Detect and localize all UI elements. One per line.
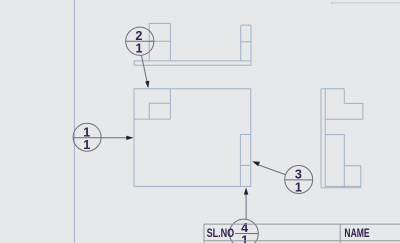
svg-text:NAME: NAME — [344, 226, 369, 240]
table bottom line — [204, 240, 400, 242]
leader line to right strip of main body — [259, 165, 286, 175]
top block — [321, 89, 363, 120]
sheet frame top-right border line — [332, 2, 400, 4]
title block table — [204, 224, 400, 243]
arrowhead pointing up — [244, 187, 248, 194]
svg-text:1: 1 — [135, 42, 142, 56]
leader line up to bottom edge of main body — [245, 195, 247, 220]
svg-text:1: 1 — [295, 180, 302, 194]
right inner strip — [240, 135, 250, 187]
arrowhead at main body left edge — [126, 136, 133, 140]
small notch rect — [149, 103, 170, 119]
outer rectangle — [134, 89, 251, 187]
svg-text:1: 1 — [241, 233, 248, 243]
leader line to top edge of main body — [141, 55, 147, 82]
part 3: right side view — [321, 89, 363, 188]
arrowhead pointing up-left — [252, 161, 260, 166]
bottom base line — [321, 187, 361, 189]
svg-text:3: 3 — [295, 167, 302, 181]
balloon 2/1 — [126, 27, 154, 88]
svg-text:1: 1 — [83, 138, 90, 152]
part 2: top channel bracket (top view) — [134, 23, 251, 65]
top-left step vertical — [169, 89, 171, 119]
top-left step horizontal — [134, 118, 170, 120]
vertical fold/border line left — [73, 0, 75, 243]
lower block — [325, 135, 361, 188]
vertical plate — [321, 89, 325, 188]
fraction bar + leader — [73, 137, 128, 139]
right upright block — [241, 25, 251, 65]
table top line — [204, 223, 400, 225]
balloon 4/1 — [230, 187, 259, 243]
left upright block — [149, 23, 170, 61]
fraction bar — [126, 40, 154, 42]
bar — [134, 61, 251, 65]
fraction bar — [285, 179, 313, 181]
svg-text:SL.NO: SL.NO — [207, 227, 235, 241]
balloon 1/1 — [73, 123, 134, 152]
table divider vertical — [339, 224, 341, 243]
fraction bar — [235, 233, 258, 235]
part 1: main body front view — [134, 89, 251, 187]
arrowhead pointing down — [145, 81, 149, 89]
balloon 3/1 — [252, 161, 313, 194]
svg-text:1: 1 — [83, 125, 90, 139]
table left vertical — [203, 224, 205, 243]
